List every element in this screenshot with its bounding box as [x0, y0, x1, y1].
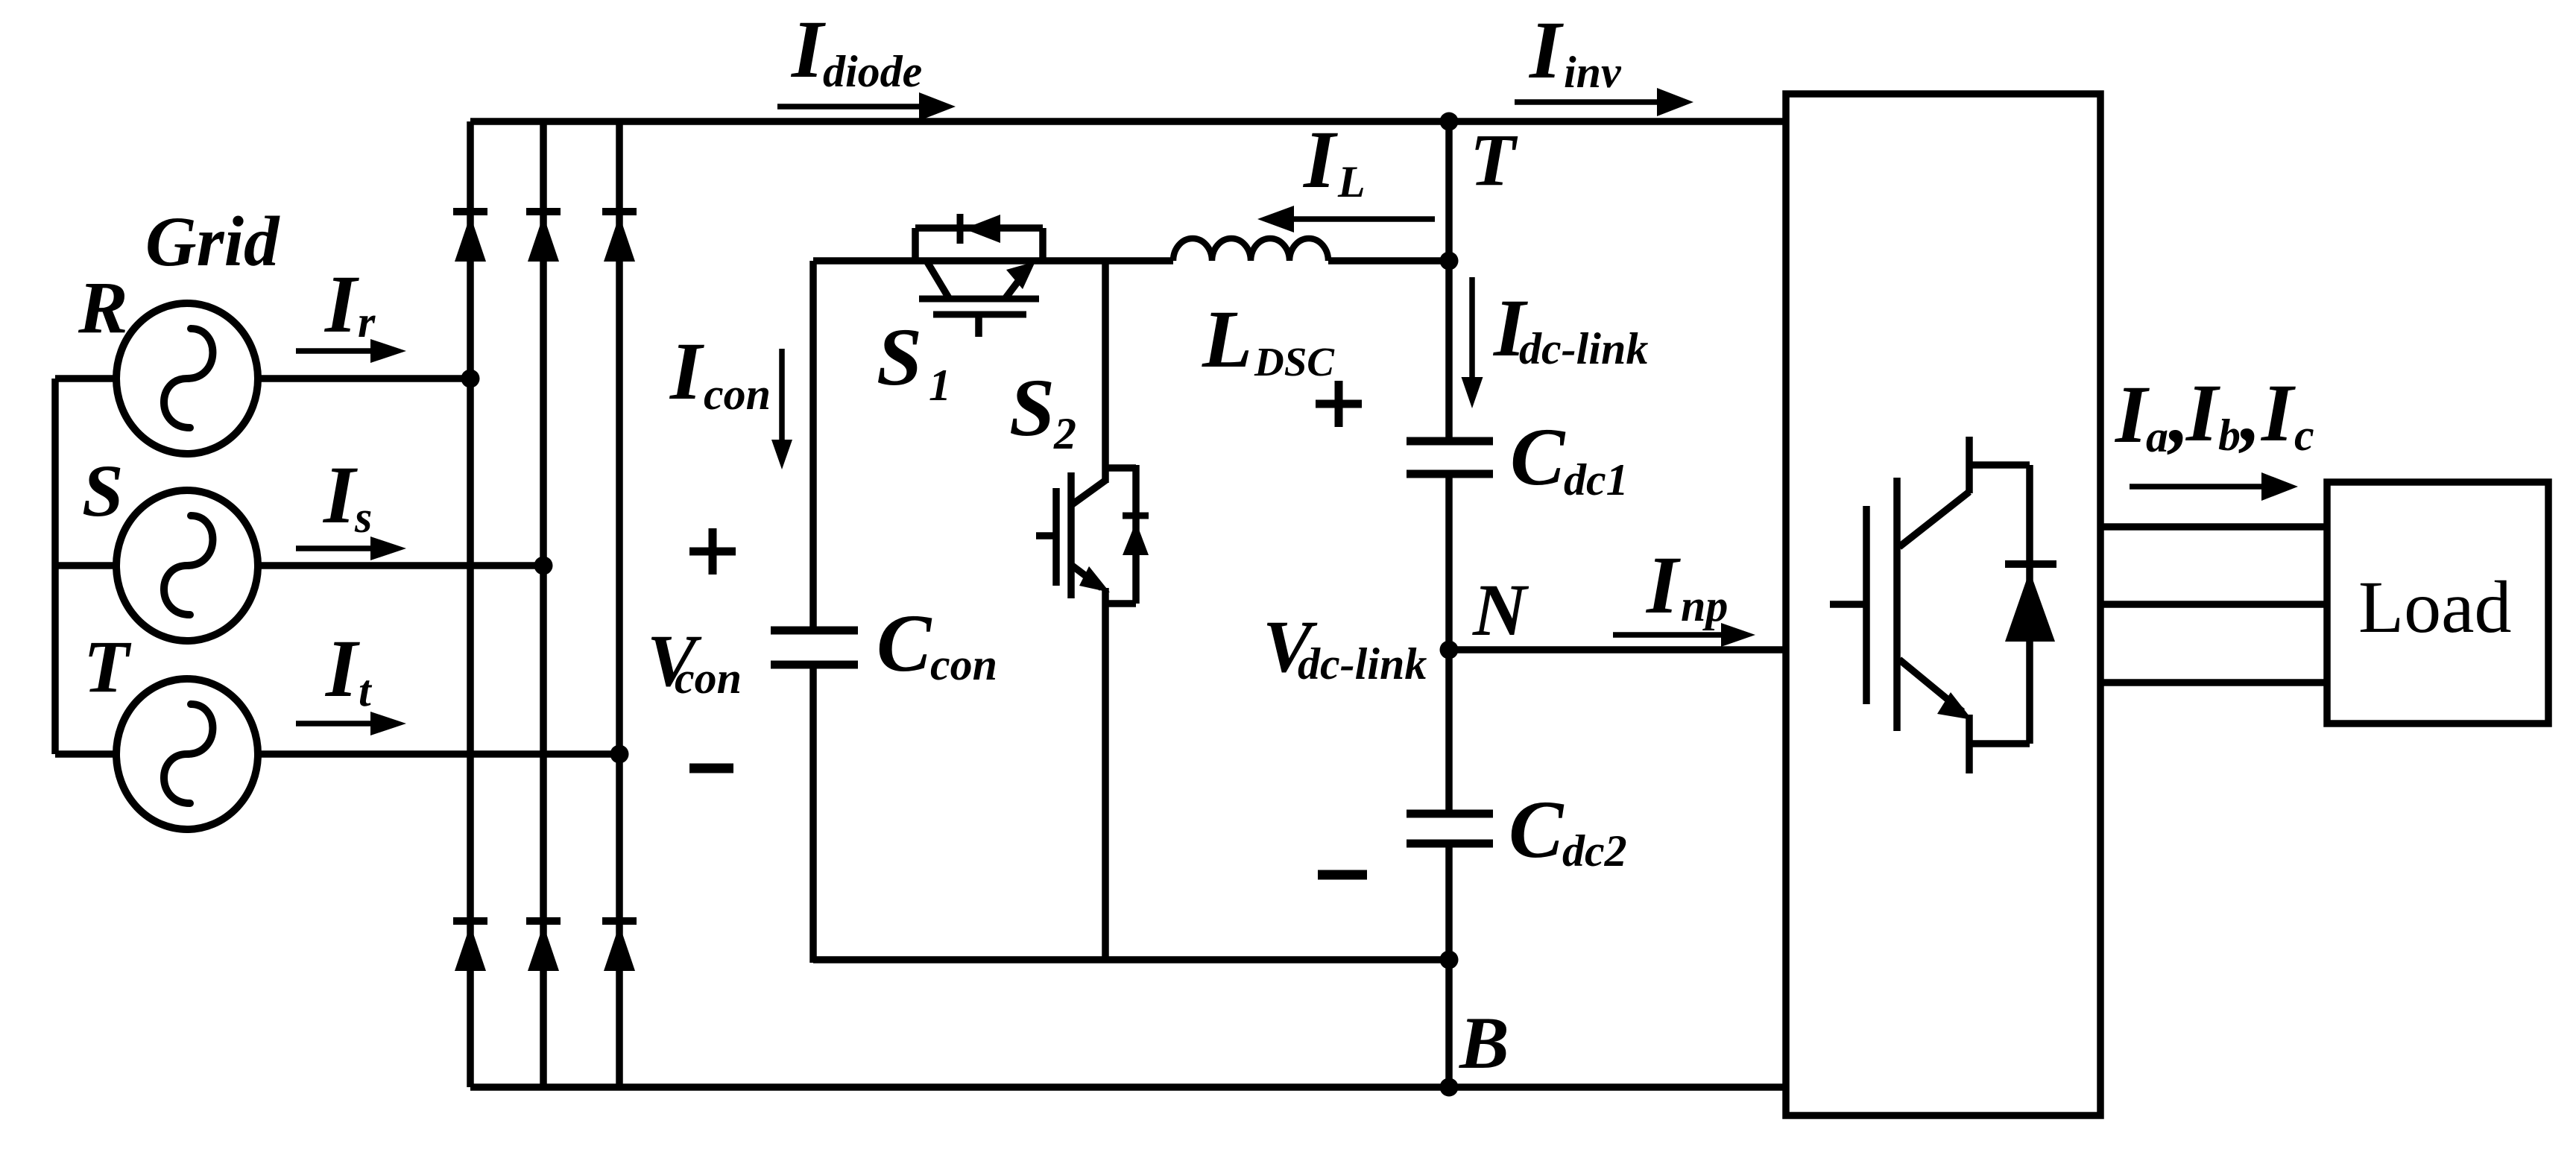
arrow I_np	[1613, 632, 1723, 638]
diode D1 triangle	[455, 215, 486, 262]
plus V_dc-link vertical	[1335, 381, 1343, 427]
svg-text:I: I	[322, 449, 358, 540]
svg-text:con: con	[930, 640, 997, 689]
capacitor C_con top plate	[771, 627, 858, 635]
wire output phase b	[2100, 601, 2327, 608]
node N	[1440, 641, 1459, 659]
diode S1 cathode bar	[957, 214, 964, 244]
IGBT inverter emitter diagonal	[1899, 659, 1963, 712]
capacitor C_dc1 bottom plate	[1407, 470, 1493, 478]
IGBT S2 emitter diagonal	[1071, 565, 1102, 588]
svg-text:C: C	[877, 598, 932, 689]
node inductor junction	[1440, 252, 1459, 270]
wire S to rectifier	[258, 562, 543, 569]
wire rectifier branch 1	[467, 121, 474, 1087]
svg-text:R: R	[78, 266, 128, 349]
wire T to rectifier	[258, 750, 619, 758]
IGBT S2 body bar	[1067, 472, 1075, 598]
svg-text:C: C	[1510, 411, 1566, 502]
IGBT S2 gate bar	[1052, 488, 1060, 586]
IGBT inverter emitter arrow	[1937, 692, 1972, 720]
inductor L_DSC	[1173, 238, 1328, 261]
IGBT inverter gate bar	[1863, 506, 1870, 704]
IGBT S1 emitter arrow	[1006, 262, 1035, 289]
wire dc-link lower	[1445, 844, 1453, 1087]
svg-text:dc-link: dc-link	[1519, 324, 1648, 373]
capacitor C_dc1 top plate	[1407, 437, 1493, 446]
svg-text:2: 2	[1053, 409, 1076, 458]
svg-text:I: I	[669, 326, 704, 417]
arrow I_inv	[1515, 99, 1659, 105]
inverter box	[1786, 94, 2100, 1115]
IGBT S1 top branch	[915, 224, 1043, 232]
capacitor C_con bottom plate	[771, 661, 858, 669]
arrow I_dc-link	[1469, 277, 1475, 379]
node B on bottom bus	[1440, 1078, 1459, 1097]
diode D4 cathode bar	[453, 917, 487, 925]
wire left bus	[51, 379, 59, 754]
diode inverter triangle	[2005, 571, 2055, 642]
svg-text:DSC: DSC	[1254, 339, 1335, 384]
wire rectifier branch 2	[540, 121, 547, 1087]
wire S1 row left	[813, 257, 1173, 265]
wire C_con bottom	[809, 665, 817, 963]
svg-text:I: I	[1528, 4, 1564, 95]
node R junction	[461, 370, 480, 388]
svg-text:Grid: Grid	[145, 202, 280, 281]
svg-text:con: con	[675, 653, 742, 703]
svg-text:I: I	[323, 259, 359, 349]
wire T left lead	[55, 750, 116, 758]
svg-text:C: C	[1509, 784, 1565, 875]
svg-text:inv: inv	[1564, 48, 1622, 97]
wire S2 collector	[1102, 261, 1109, 483]
diode inverter branch	[2026, 465, 2033, 744]
svg-text:I: I	[2185, 367, 2220, 458]
svg-text:dc1: dc1	[1564, 455, 1629, 504]
wire R left lead	[55, 375, 116, 382]
svg-text:con: con	[704, 370, 771, 419]
capacitor C_dc2 top plate	[1407, 810, 1493, 818]
svg-text:T: T	[83, 625, 132, 708]
diode D6 cathode bar	[602, 917, 637, 925]
diode D2 triangle	[528, 215, 559, 262]
svg-text:dc2: dc2	[1562, 826, 1627, 876]
wire R to rectifier	[258, 375, 470, 382]
svg-text:I: I	[1302, 114, 1338, 205]
current arrow It	[296, 721, 373, 727]
svg-text:I: I	[2260, 367, 2296, 458]
IGBT S2 collector diagonal	[1071, 480, 1106, 505]
wire bottom DC bus	[470, 1083, 1786, 1091]
IGBT S1 gate plate	[933, 311, 1026, 318]
svg-text:S: S	[82, 449, 124, 532]
plus V_con vertical	[709, 528, 717, 575]
svg-text:N: N	[1472, 569, 1529, 651]
diode D2 cathode bar	[526, 208, 561, 215]
node T on top bus	[1440, 113, 1459, 131]
svg-text:S: S	[1009, 362, 1055, 453]
diode D3 triangle	[604, 215, 635, 262]
svg-text:I: I	[324, 623, 360, 714]
diode S2 cathode bar	[1123, 513, 1149, 519]
diode D5 triangle	[528, 925, 559, 971]
svg-text:L: L	[1337, 157, 1366, 206]
wire inductor to dc-link	[1328, 257, 1449, 265]
diode inverter cathode bar	[2005, 560, 2056, 568]
svg-text:T: T	[1470, 118, 1518, 201]
node DSC return junction	[1440, 951, 1459, 969]
arrow I_con	[779, 349, 785, 442]
IGBT S1 collector diagonal	[926, 261, 949, 298]
arrow I_L	[1292, 216, 1435, 222]
svg-text:I: I	[1645, 539, 1681, 630]
diode D4 triangle	[455, 925, 486, 971]
wire rectifier branch 3	[616, 121, 623, 1087]
IGBT inverter emitter stub	[1966, 715, 1973, 773]
diode S2 triangle	[1123, 522, 1149, 555]
IGBT S1 right stub	[1039, 228, 1046, 262]
IGBT inverter top jog	[1969, 461, 2030, 469]
svg-text:S: S	[877, 311, 922, 402]
IGBT inverter collector diagonal	[1899, 492, 1969, 547]
diode D6 triangle	[604, 925, 635, 971]
wire N to inverter	[1449, 646, 1786, 653]
IGBT inverter gate lead	[1830, 601, 1866, 608]
diode S1 triangle	[964, 215, 1000, 243]
wire C_con top	[809, 261, 817, 630]
svg-text:I: I	[2114, 369, 2150, 460]
arrow I_diode	[777, 104, 921, 110]
wire output phase a	[2100, 523, 2327, 531]
load box	[2327, 482, 2548, 724]
wire dc-link middle	[1445, 474, 1453, 814]
IGBT S2 emitter arrow	[1079, 566, 1110, 592]
IGBT S2 gate lead	[1036, 532, 1056, 539]
svg-text:Load: Load	[2358, 566, 2511, 648]
svg-text:a: a	[2146, 412, 2168, 461]
AC source S	[116, 490, 258, 641]
diode D3 cathode bar	[602, 208, 637, 215]
current arrow Is	[296, 545, 373, 551]
svg-text:L: L	[1202, 294, 1252, 384]
node S junction	[534, 557, 553, 575]
IGBT S1 gate stub	[975, 314, 982, 337]
svg-text:I: I	[790, 4, 826, 95]
wire S left lead	[55, 562, 116, 569]
arrow Ia Ib Ic	[2130, 484, 2264, 490]
IGBT S2 top jog	[1105, 464, 1136, 472]
IGBT inverter bottom jog	[1969, 740, 2030, 747]
diode D5 cathode bar	[526, 917, 561, 925]
IGBT S2 bottom jog	[1105, 600, 1136, 607]
svg-text:,: ,	[2238, 367, 2261, 458]
AC source T	[116, 679, 258, 829]
plus V_dc-link horizontal	[1316, 400, 1362, 408]
svg-text:t: t	[359, 666, 373, 715]
svg-text:dc-link: dc-link	[1298, 639, 1427, 689]
svg-text:np: np	[1681, 581, 1728, 630]
diode S2 branch	[1132, 465, 1140, 604]
wire output phase c	[2100, 679, 2327, 686]
IGBT inverter body bar	[1893, 478, 1901, 731]
wire top DC bus	[470, 118, 1786, 125]
minus V_dc-link	[1318, 870, 1367, 880]
current arrow Ir	[296, 348, 373, 354]
svg-text:b: b	[2218, 411, 2241, 460]
IGBT S1 left stub	[912, 228, 919, 261]
wire dc-link upper	[1445, 121, 1453, 441]
IGBT S1 emitter diagonal	[1006, 268, 1029, 298]
plus V_con horizontal	[689, 548, 736, 556]
svg-text:r: r	[358, 297, 376, 346]
svg-text:diode: diode	[823, 47, 922, 96]
node T junction	[610, 745, 629, 764]
svg-text:c: c	[2294, 411, 2314, 460]
svg-text:B: B	[1459, 1001, 1509, 1084]
minus V_con	[689, 764, 733, 773]
IGBT inverter collector stub	[1966, 437, 1973, 493]
diode D1 cathode bar	[453, 208, 487, 215]
AC source R	[116, 303, 258, 454]
svg-text:s: s	[354, 493, 372, 542]
capacitor C_dc2 bottom plate	[1407, 840, 1493, 848]
IGBT S1 base bar	[919, 296, 1039, 303]
svg-text:1: 1	[929, 361, 951, 410]
wire DSC bottom	[813, 956, 1449, 963]
wire S2 emitter down	[1102, 588, 1109, 963]
